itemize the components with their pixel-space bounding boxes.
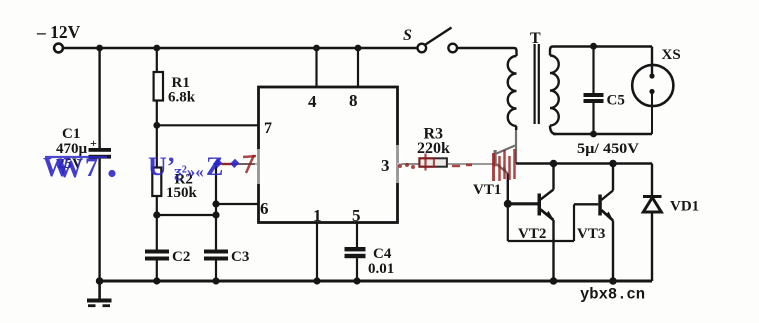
wire secondary bottom: [553, 133, 652, 135]
wire VT3 emitter down: [612, 221, 614, 282]
wire base tie up: [573, 204, 575, 241]
wire C1 branch lower: [98, 159, 100, 281]
ground: [87, 281, 112, 307]
wire pin4: [315, 48, 317, 87]
svg-text:7: 7: [264, 120, 272, 137]
wire VT2 collector up: [552, 164, 554, 190]
wire R2 bottom to C3 column: [157, 214, 216, 216]
wire rail to VD1: [651, 164, 653, 197]
capacitor C3: [204, 249, 249, 281]
wire pin2: [216, 163, 259, 165]
svg-text:C3: C3: [231, 249, 249, 265]
node VT3 emitter ground junction: [609, 277, 617, 285]
wire collector rail: [516, 162, 652, 165]
node pin8 junction: [355, 45, 362, 52]
power terminal -12V: [36, 22, 81, 52]
svg-text:VT2: VT2: [518, 226, 546, 242]
node R1 top junction: [153, 45, 160, 52]
watermark blue dots: [213, 159, 239, 168]
wire R3 to VT1 base: [448, 163, 494, 165]
capacitor C2: [145, 215, 190, 281]
wire VT3 base lead: [574, 203, 598, 205]
svg-text:ybx8.cn: ybx8.cn: [580, 286, 645, 304]
svg-text:1: 1: [313, 206, 322, 225]
svg-text:5µ/ 450V: 5µ/ 450V: [577, 141, 639, 157]
svg-text:VT3: VT3: [577, 226, 605, 242]
svg-text:VD1: VD1: [670, 199, 699, 215]
transistor VT3: [577, 191, 614, 243]
wire ground bus: [96, 280, 652, 283]
wire base tie across: [508, 240, 574, 242]
resistor R1: [154, 48, 196, 125]
node pin4 junction: [313, 45, 320, 52]
wire base tie down: [507, 204, 509, 241]
resistor R3: [417, 126, 450, 167]
wire C1 branch upper: [98, 48, 100, 149]
svg-text:S: S: [403, 27, 412, 44]
svg-text:ƺ²»«: ƺ²»«: [174, 162, 204, 181]
svg-text:U’: U’: [148, 152, 175, 181]
diode VD1: [643, 197, 699, 282]
node C1 top junction: [96, 45, 103, 52]
node C5 top junction: [590, 43, 597, 50]
transformer T primary winding: [508, 30, 541, 130]
svg-text:XS: XS: [662, 47, 681, 63]
wire VT1 collector to transformer: [515, 128, 517, 164]
watermark white wash over IC edges: [255, 145, 402, 184]
watermark red marks: [222, 149, 515, 181]
svg-text:– 12V: – 12V: [36, 22, 81, 42]
watermark blue left: [43, 152, 223, 183]
node C5 bottom junction: [590, 131, 597, 138]
node pin6 junction: [212, 200, 219, 207]
wire VT1 emitter down: [507, 174, 509, 204]
transformer T secondary winding: [550, 47, 559, 135]
svg-text:+: +: [90, 136, 97, 150]
svg-text:3: 3: [381, 156, 390, 175]
svg-text:220k: 220k: [417, 140, 450, 157]
svg-text:6.8k: 6.8k: [168, 90, 196, 106]
wire switch to transformer: [457, 47, 514, 49]
wire VT3 collector up: [612, 164, 614, 191]
node C2 ground junction: [153, 277, 160, 284]
wire pin8: [357, 48, 359, 87]
node ground junction: [96, 277, 104, 285]
node VT2 collector junction: [550, 160, 558, 168]
svg-text:6: 6: [260, 199, 269, 218]
node pin2 column junction: [212, 211, 219, 218]
svg-text:VT1: VT1: [473, 182, 501, 198]
wire pin2 column: [215, 164, 217, 250]
transformer T core: [535, 44, 539, 124]
node VT2 emitter ground junction: [550, 277, 558, 285]
transistor VT1: [473, 146, 515, 199]
wire VT2 emitter down: [552, 220, 554, 281]
wire pin3: [398, 163, 420, 165]
svg-text:C4: C4: [373, 246, 392, 262]
wire secondary top: [553, 45, 652, 47]
svg-text:C2: C2: [172, 249, 190, 265]
node R1 bottom / pin7 junction: [153, 122, 160, 129]
wire pin1: [316, 223, 318, 282]
node C4 ground junction: [353, 277, 360, 284]
node C3 ground junction: [212, 277, 219, 284]
node pin1 ground junction: [313, 277, 320, 284]
wire pin6: [216, 203, 259, 205]
node VT3 collector junction: [609, 160, 617, 168]
capacitor C1: [56, 126, 111, 172]
capacitor C5: [584, 47, 625, 135]
wire VT1 emitter to VT2 base: [508, 202, 538, 205]
node VT1 emitter junction: [504, 200, 512, 208]
wire top bus left: [63, 47, 417, 49]
svg-text:Z: Z: [206, 152, 223, 181]
svg-text:150k: 150k: [166, 185, 198, 201]
capacitor C4: [345, 223, 395, 282]
transistor VT2: [518, 190, 554, 243]
node R2 bottom junction: [153, 211, 160, 218]
IC U1 555 timer box: [259, 87, 398, 225]
svg-text:4: 4: [308, 92, 317, 111]
svg-text:0.01: 0.01: [368, 261, 394, 277]
wire pin7: [157, 124, 259, 126]
resistor R2: [152, 125, 197, 215]
svg-text:C5: C5: [607, 93, 625, 109]
svg-text:5: 5: [352, 206, 361, 225]
svg-text:8: 8: [349, 91, 358, 110]
svg-text:C1: C1: [62, 126, 80, 142]
switch S: [403, 27, 457, 52]
socket XS: [632, 47, 680, 135]
